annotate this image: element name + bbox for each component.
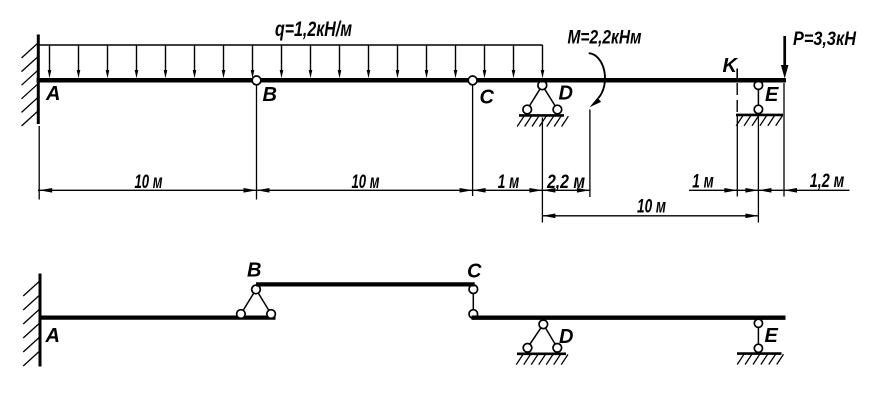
- distributed load q top line: [38, 44, 543, 46]
- roller support E (bottom figure): [737, 319, 784, 364]
- pin support D (bottom figure): [516, 320, 568, 365]
- svg-text:10 м: 10 м: [637, 197, 666, 218]
- svg-text:2,2 м: 2,2 м: [546, 172, 585, 193]
- dimension line row 2 (10 m D-E): [542, 215, 758, 217]
- svg-text:B: B: [247, 260, 261, 282]
- svg-text:K: K: [723, 55, 739, 77]
- dimension extension line at B: [256, 86, 258, 200]
- dimension extension line at beam end: [783, 83, 785, 197]
- dimension extension line at D: [541, 118, 543, 223]
- svg-text:q=1,2кН/м: q=1,2кН/м: [275, 18, 352, 41]
- dim arrows row 1: [39, 188, 797, 193]
- svg-text:A: A: [45, 83, 60, 105]
- svg-text:10 м: 10 м: [352, 172, 380, 193]
- beam A-B (bottom figure): [39, 315, 276, 319]
- svg-text:M=2,2кНм: M=2,2кНм: [568, 27, 642, 49]
- dimension extension line at K: [736, 115, 738, 197]
- fixed support wall at A (bottom figure): [23, 274, 40, 367]
- moment M arc arrow: [589, 53, 605, 107]
- svg-text:C: C: [467, 261, 482, 283]
- svg-text:B: B: [263, 84, 277, 106]
- dimension extension line at A: [38, 126, 40, 200]
- link hinge at C (bottom figure): [469, 285, 478, 318]
- hinge B (top): [252, 76, 261, 85]
- fixed support wall at A (top figure): [22, 35, 39, 127]
- dimension extension line at E: [757, 115, 759, 223]
- dimension extension line at C: [472, 86, 474, 197]
- svg-text:D: D: [559, 326, 573, 348]
- dimension line row 1 left part: [38, 189, 590, 191]
- svg-text:10 м: 10 м: [135, 172, 163, 193]
- roller support E (top figure): [736, 81, 783, 126]
- node K label and tick: [723, 55, 739, 78]
- svg-text:1 м: 1 м: [498, 172, 520, 193]
- hinge C (top): [468, 76, 477, 85]
- beam A-E (top figure): [37, 78, 786, 83]
- svg-text:1,2 м: 1,2 м: [810, 171, 845, 192]
- svg-text:1 м: 1 м: [692, 172, 714, 193]
- beam B-C (bottom figure, upper): [256, 282, 475, 286]
- hinge support B on beam A (bottom figure): [237, 285, 276, 318]
- dimension extension line at moment point: [589, 110, 591, 198]
- svg-text:E: E: [765, 325, 779, 347]
- beam C-E (bottom figure, lower right): [472, 316, 786, 320]
- dimension line row 1 right part: [689, 189, 850, 191]
- svg-text:D: D: [559, 83, 573, 105]
- dashed line at K: [736, 83, 738, 115]
- pin support D (top figure): [517, 81, 568, 127]
- distributed load arrows: [48, 45, 545, 78]
- svg-text:E: E: [765, 84, 779, 106]
- svg-text:A: A: [45, 325, 60, 347]
- svg-text:C: C: [480, 87, 495, 109]
- force P arrow: [781, 36, 789, 79]
- svg-text:P=3,3кН: P=3,3кН: [793, 29, 857, 50]
